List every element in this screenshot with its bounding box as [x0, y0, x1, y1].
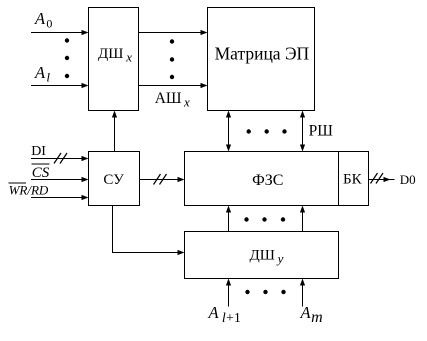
svg-text:A: A: [34, 9, 46, 28]
svg-text:l: l: [46, 70, 50, 85]
svg-text:0: 0: [46, 17, 52, 31]
bidirectional wire matrix-FZS right (RSh): [300, 111, 305, 152]
svg-text:ФЗС: ФЗС: [252, 172, 283, 189]
wire DShy to FZS right: [300, 206, 305, 232]
wire SU to FZS with bus slashes: [140, 174, 185, 185]
wire SU to DShx: [112, 111, 117, 152]
decoder DShy block: [185, 232, 339, 279]
control unit SU block: [89, 152, 140, 206]
svg-text:A: A: [34, 63, 46, 82]
node RSh label: [309, 122, 334, 139]
FZS block with BK section: [185, 152, 369, 206]
svg-text:ДШ: ДШ: [98, 46, 123, 62]
svg-text:Матрица ЭП: Матрица ЭП: [215, 43, 310, 63]
node AShx label: [155, 90, 190, 109]
wire DShx to matrix upper: [139, 30, 208, 35]
wire DShx to matrix lower: [139, 83, 208, 88]
node DI label: [31, 144, 46, 159]
wire A0 input: [31, 30, 89, 35]
node D0 label: [400, 172, 416, 187]
wire Am input: [300, 279, 305, 307]
junction dots FZS-DShy lines: [244, 217, 285, 221]
node A0 label: [34, 9, 52, 31]
junction dots RSh lines: [247, 129, 287, 133]
wire BK to D0 output with bus slashes: [369, 173, 395, 184]
svg-text:ДШ: ДШ: [250, 247, 275, 263]
wire DShy to FZS left: [226, 206, 231, 232]
svg-text:CS: CS: [32, 165, 50, 181]
node WR-bar/RD label: [9, 183, 49, 198]
wire DI input with bus slashes: [31, 153, 89, 164]
svg-text:m: m: [311, 309, 323, 326]
svg-text:РШ: РШ: [309, 122, 334, 139]
svg-text:x: x: [183, 95, 190, 110]
svg-text:D0: D0: [400, 172, 416, 187]
node CS-bar label: [32, 164, 50, 181]
wire CS input: [31, 177, 89, 182]
svg-text:DI: DI: [31, 144, 46, 159]
svg-text:БК: БК: [343, 172, 363, 188]
wire WR/RD input: [31, 195, 89, 200]
svg-text:WR/RD: WR/RD: [9, 183, 49, 198]
bidirectional wire matrix-FZS left: [226, 111, 231, 152]
decoder DShx block: [89, 8, 139, 111]
node Al+1 label: [208, 303, 241, 326]
node Am label: [300, 303, 323, 326]
wire SU to DShy: [113, 206, 185, 256]
junction dots between A0 and Al inputs: [65, 38, 69, 78]
svg-text:A: A: [208, 303, 220, 322]
wire Al+1 input: [226, 279, 231, 307]
wire Al input: [31, 83, 89, 88]
junction dots lower address inputs: [245, 290, 285, 294]
svg-text:СУ: СУ: [103, 172, 124, 188]
svg-text:A: A: [300, 303, 312, 322]
memory matrix EP block: [208, 8, 315, 111]
svg-text:y: y: [276, 251, 284, 266]
node Al label: [34, 63, 50, 85]
svg-text:+1: +1: [226, 311, 241, 326]
svg-text:АШ: АШ: [155, 90, 182, 107]
junction dots address lines: [170, 39, 174, 79]
svg-text:x: x: [125, 50, 132, 65]
